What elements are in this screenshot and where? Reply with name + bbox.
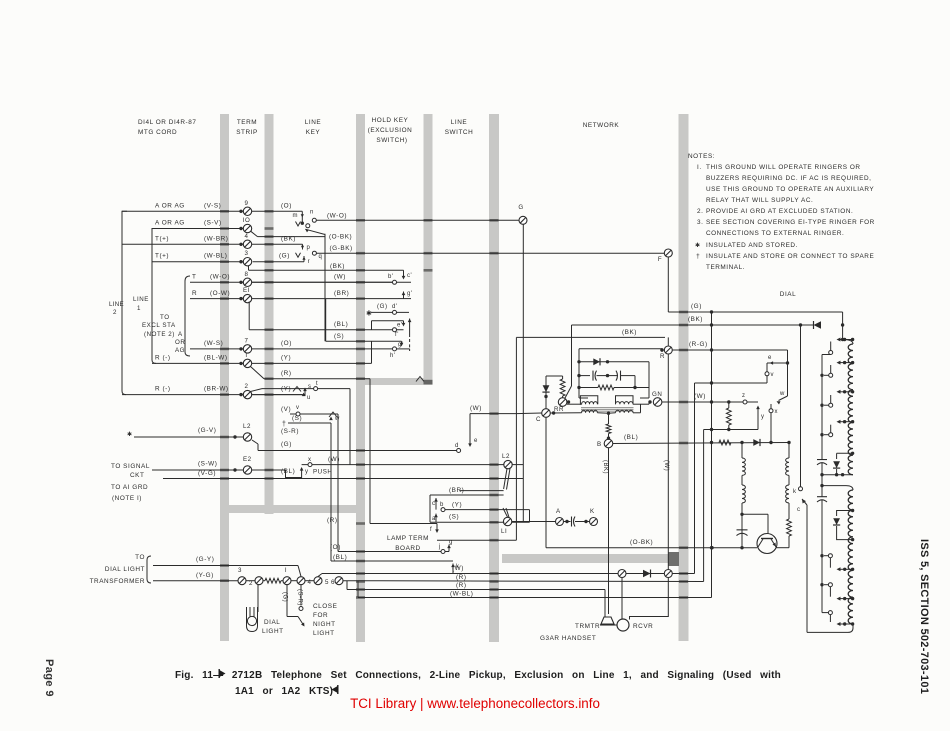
svg-text:3: 3 [238,567,242,574]
contact q on (G-BK) row [312,251,316,255]
svg-text:(NOTE 2): (NOTE 2) [144,331,175,338]
svg-text:T: T [192,274,196,281]
ringer 1 bottom wire [822,474,853,476]
svg-text:LINE: LINE [451,119,467,126]
svg-text:x: x [308,457,312,463]
svg-text:MTG CORD: MTG CORD [138,129,177,136]
svg-text:x: x [775,409,779,415]
svg-text:R (-): R (-) [155,354,171,361]
svg-text:†: † [282,421,286,428]
svg-text:(O): (O) [281,340,292,347]
network resistor row [577,386,580,389]
svg-text:A OR AG: A OR AG [155,202,185,209]
lamp terminal 2 [246,580,255,582]
svg-text:e: e [768,355,772,361]
gray strip term-strip right [265,114,274,514]
wire c vertical down [806,505,808,632]
svg-text:(Y): (Y) [452,502,462,509]
terminal R [664,346,672,354]
wire o contact diagonal to (O-BK) [305,229,309,232]
network transformer bottom windings [582,410,598,413]
night light switch [286,585,288,617]
contact h' on terminal 7 row [393,347,397,351]
svg-text:IO: IO [243,217,251,224]
lamp terminal 6 [335,577,343,585]
svg-text:(W): (W) [328,456,340,463]
contact n on (W-O) row [312,218,316,222]
gray strip hold-key [424,114,433,380]
svg-text:(S): (S) [334,333,344,340]
svg-text:v: v [296,405,300,411]
terminal F [664,249,672,257]
ringer 1 left rail [822,354,831,356]
wire (BL) row from B to dial [613,443,789,444]
wire RR feed corner [571,325,573,386]
wire terminal 2 to s-t row [251,389,263,392]
svg-text:(BL): (BL) [333,554,347,561]
lamp terminal G [291,580,297,582]
contact r riser from terminal 3 row [303,256,305,262]
svg-text:SWITCH: SWITCH [445,129,474,136]
svg-text:(S): (S) [449,514,459,521]
svg-text:u: u [307,395,311,401]
svg-text:(BR): (BR) [334,290,349,297]
svg-text:(V): (V) [281,406,291,413]
svg-text:Fig. 11— 2712B Telephone Se: Fig. 11— 2712B Telephone Set Connections… [175,670,781,681]
svg-text:INSULATE AND STORE OR CONNECT: INSULATE AND STORE OR CONNECT TO SPARE [706,253,874,260]
dial inductor right [788,443,790,459]
wire RCVR right lead [630,578,669,620]
svg-text:I: I [285,567,287,574]
svg-text:(W): (W) [334,274,346,281]
wire e up to (W) cross-connect [469,414,471,437]
varistor at C [545,376,547,383]
wire (O-BK) row [546,547,757,549]
varistor on (BK) at ringer [814,321,822,329]
svg-text:F: F [658,256,662,263]
svg-text:†: † [696,253,700,260]
ringer 2 tap rows [843,568,846,571]
wire L1 to A [512,521,556,523]
svg-text:LI: LI [501,528,507,535]
network capacitor row [577,374,580,377]
wire (BK) feed to R terminal [516,336,665,338]
contact m n o cluster on line key [301,211,303,224]
contact y arrow [757,407,759,430]
bracket dial light transformer [147,556,151,583]
terminal B [604,439,613,448]
svg-text:m: m [293,213,299,219]
wire vertical 325 from (O-BK) row to (S) row [324,234,326,341]
wire row (S-W) to terminal E2 [152,469,243,471]
transformer core [581,407,634,409]
svg-text:LINE: LINE [109,301,124,308]
svg-text:e': e' [397,323,403,329]
terminal GN [653,398,662,407]
wire G vertical down [522,225,524,522]
terminal A and K with capacitor [556,518,564,526]
svg-text:(BL): (BL) [334,321,348,328]
svg-text:y: y [305,469,309,475]
svg-text:k: k [793,489,797,495]
ringer 1 varistor branch [837,452,853,454]
svg-text:R: R [192,290,197,297]
svg-text:LINE: LINE [305,119,321,126]
bracket LINE 1 [152,229,157,364]
handset diode [626,573,664,575]
RCVR [617,619,629,631]
wire R vertical down to handset terminal [667,354,669,569]
svg-text:2: 2 [249,580,253,587]
wire row A OR AG (S-V) to terminal 10 [152,228,243,230]
svg-text:(G): (G) [377,303,388,310]
wire (S) row to cluster [326,340,402,342]
svg-text:DIAL LIGHT: DIAL LIGHT [105,566,145,573]
svg-text:TO: TO [135,554,145,561]
contact b' c' on (W) row [392,281,411,283]
ringer 2 coil [848,490,853,624]
svg-text:n: n [310,210,314,216]
svg-text:6: 6 [331,579,335,586]
svg-text:(W): (W) [663,460,669,471]
wire between ringers [821,475,823,486]
svg-text:3: 3 [245,250,249,257]
svg-text:I.: I. [697,164,702,171]
svg-text:NETWORK: NETWORK [583,122,620,129]
svg-text:USE THIS GROUND TO OPERATE AN: USE THIS GROUND TO OPERATE AN AUXILIARY [706,186,874,193]
svg-text:4: 4 [245,233,249,240]
dial resistor vertical [728,402,730,408]
svg-text:3.: 3. [697,219,703,226]
svg-text:2: 2 [113,309,117,316]
wire TRMTR lead [604,590,606,618]
wire crossing marks on strips [220,210,229,213]
terminal C [542,409,551,418]
lamp terminal 5 [305,580,314,582]
ringer 2 contacts [820,554,823,557]
svg-text:9: 9 [245,200,249,207]
svg-text:(EXCLUSION: (EXCLUSION [368,127,413,134]
svg-text:g: g [449,540,453,546]
svg-text:TERMINAL.: TERMINAL. [706,264,745,271]
svg-text:(S-W): (S-W) [198,461,217,468]
svg-text:1: 1 [137,305,141,312]
svg-text:y: y [761,414,765,420]
svg-text:d': d' [392,304,398,310]
svg-text:AG: AG [175,347,185,354]
contact w [779,396,788,401]
network bottom center tap to B [607,412,610,415]
svg-text:(BR-W): (BR-W) [204,386,229,393]
svg-text:1A1 or 1A2 KTS): 1A1 or 1A2 KTS) [235,686,333,697]
svg-text:BOARD: BOARD [395,545,420,552]
svg-text:(W-BR): (W-BR) [204,235,228,242]
ringer 2 capacitor [821,487,823,497]
svg-text:a: a [432,516,436,522]
wire transfer row to network vertical [437,539,516,541]
svg-text:GN: GN [652,391,662,398]
svg-text:EI: EI [243,287,250,294]
caption change marker 1 [219,670,226,678]
svg-text:(W-O): (W-O) [210,274,230,281]
terminal RR [558,398,567,407]
svg-text:T(+): T(+) [155,253,169,260]
svg-text:s: s [308,384,312,390]
svg-text:CKT: CKT [130,472,144,479]
ringer 1 capacitor [821,448,823,460]
svg-text:TO: TO [160,314,170,321]
svg-text:K: K [590,508,595,515]
svg-text:TRANSFORMER: TRANSFORMER [90,578,145,585]
svg-text:G3AR HANDSET: G3AR HANDSET [540,635,596,642]
svg-text:SWITCH): SWITCH) [376,137,407,144]
svg-text:(R-G): (R-G) [689,341,708,348]
svg-text:A: A [556,508,561,515]
svg-text:q: q [319,254,323,260]
svg-text:A OR AG: A OR AG [155,220,185,227]
L2 spring contacts [504,469,507,489]
wire row T(+) (W-BR) to terminal 4 [122,243,243,245]
svg-text:DI4L OR DI4R-87: DI4L OR DI4R-87 [138,119,196,126]
wire (BL) row to e' cluster [249,329,403,331]
lamp terminal 1 [283,577,291,585]
terminal L1 line switch [503,517,511,525]
svg-text:f: f [430,527,432,533]
svg-text:w: w [334,416,340,422]
contact u [302,393,306,397]
svg-text:d: d [455,443,459,449]
ringer 1 armature contacts [830,342,832,352]
svg-text:(W-O): (W-O) [327,213,347,220]
contact g' on (BR) row [398,298,411,300]
svg-text:I: I [245,352,247,359]
handset terminal right [664,570,672,578]
contact o [306,224,310,228]
ringer 2 top wire [822,485,846,487]
wire L1 row to vertical [512,521,530,523]
ringer 2 bottom wire [807,624,853,632]
contact k [451,564,455,568]
wire B vertical down (BK) to TRMTR [608,448,610,614]
svg-text:FOR: FOR [313,612,328,619]
contact e [767,362,788,364]
svg-text:z: z [742,393,746,399]
gray strip line-key [356,114,365,642]
network transformer windings [579,397,588,399]
svg-text:T(+): T(+) [155,235,169,242]
svg-text:(G): (G) [691,303,702,310]
wire terminal 10 to (O-BK) row [251,231,258,236]
RR resistor leg [546,375,563,377]
svg-text:4: 4 [308,579,312,586]
svg-text:ISS 5, SECTION 502-703-101: ISS 5, SECTION 502-703-101 [918,539,930,694]
svg-text:RELAY THAT WILL SUPPLY AC.: RELAY THAT WILL SUPPLY AC. [706,197,813,204]
dial resistor right leg [787,519,792,536]
TRMTR symbol [601,617,614,624]
svg-text:w: w [779,391,785,397]
lamp terminal 3 [238,577,246,585]
terminal L2 line switch [504,460,512,468]
wire (BK) row from terminal 3 [248,266,250,270]
svg-text:(Y): (Y) [281,354,291,361]
contact p q r cluster [302,244,304,249]
svg-text:(S-V): (S-V) [204,220,222,227]
svg-text:STRIP: STRIP [236,129,258,136]
ringer 1 tap rows [843,338,846,341]
svg-text:RR: RR [554,406,564,413]
svg-text:C: C [536,416,541,423]
notes block [688,153,875,271]
svg-text:(BK): (BK) [622,329,637,336]
svg-text:G: G [518,204,523,211]
handset terminal left [618,570,626,578]
svg-text:(S-R): (S-R) [281,428,299,435]
svg-text:8: 8 [245,271,249,278]
svg-text:(O-BK): (O-BK) [329,234,352,241]
gray bar lamp term board top [225,505,358,513]
svg-text:B: B [597,441,602,448]
wire RCVR left lead [621,578,623,619]
svg-text:TO AI GRD: TO AI GRD [111,484,148,491]
svg-text:(BK): (BK) [688,316,703,323]
transistor [757,534,777,554]
gray bar hold-key bottom elbow [356,378,433,385]
svg-text:L2: L2 [502,453,510,460]
svg-text:EXCL STA: EXCL STA [142,322,176,329]
wire row T (W-O) to terminal 8 [190,281,243,283]
svg-text:NIGHT: NIGHT [313,621,336,628]
svg-text:TERM: TERM [237,119,257,126]
svg-text:R (-): R (-) [155,386,171,393]
svg-text:(R): (R) [456,582,467,589]
svg-text:2.: 2. [697,208,703,215]
svg-text:(Y-G): (Y-G) [196,572,214,579]
svg-text:(S): (S) [292,415,302,422]
svg-text:5: 5 [325,579,329,586]
contact caret on (R) row [416,377,424,382]
svg-text:✱: ✱ [695,242,701,249]
wire (W) row from GN to dial [662,401,758,403]
svg-text:HOLD KEY: HOLD KEY [372,117,409,124]
wire L2 to vertical bus [512,464,523,466]
wire row A OR AG (W-S) to terminal 7 [190,348,243,350]
bracket LINE 2 [122,211,127,394]
svg-text:t: t [316,381,318,387]
svg-text:b': b' [388,274,394,280]
contact x [757,401,759,403]
wire (BL) feed from E1 down [248,302,250,330]
L1 spring contacts [503,508,508,517]
wire row R(-) (BL-W) to terminal 1 [152,362,243,364]
svg-text:(W-S): (W-S) [204,340,223,347]
svg-text:DIAL: DIAL [780,291,796,298]
svg-text:(W): (W) [452,565,464,572]
svg-text:j: j [438,544,441,550]
svg-text:(R): (R) [327,517,338,524]
svg-text:2: 2 [245,383,249,390]
svg-text:(S-R): (S-R) [297,589,303,606]
contact e' cluster [372,320,404,322]
svg-text:p: p [307,245,311,251]
wire row R (O-W) to terminal E1 [190,298,243,300]
svg-text:(BR): (BR) [449,487,464,494]
svg-text:(G): (G) [279,253,290,260]
svg-text:INSULATED AND STORED.: INSULATED AND STORED. [706,242,798,249]
svg-text:LIGHT: LIGHT [262,628,284,635]
svg-text:(O): (O) [330,544,341,551]
svg-text:(V-G): (V-G) [198,470,216,477]
wire vertical bus dial x=711.5 [711,312,713,598]
svg-text:BUZZERS REQUIRING DC. IF AC IS: BUZZERS REQUIRING DC. IF AC IS REQUIRED, [706,175,871,182]
svg-text:(O): (O) [281,202,292,209]
svg-text:TRMTR: TRMTR [575,623,600,630]
dial inductor left [741,443,743,459]
svg-text:c': c' [407,273,412,279]
capacitor on left leg [741,516,743,530]
svg-text:(G-BK): (G-BK) [330,245,353,252]
svg-text:(V-S): (V-S) [204,202,221,209]
svg-text:(O-W): (O-W) [210,290,230,297]
svg-text:DIAL: DIAL [264,619,280,626]
ringer 2 varistor branch [851,509,854,512]
ringer 1 coil [843,340,853,345]
wire vertical bus C-row to transfer row [515,414,517,541]
svg-text:CLOSE: CLOSE [313,603,337,610]
svg-text:(G): (G) [282,592,288,602]
wire row T(+) (W-BL) to terminal 3 [152,261,243,263]
contact s [293,387,301,392]
svg-text:(R): (R) [281,370,292,377]
wire vertical to handset left [694,383,696,574]
svg-text:(O-BK): (O-BK) [630,539,653,546]
svg-text:(W-BL): (W-BL) [450,591,473,598]
svg-text:✱: ✱ [366,310,372,318]
svg-text:LIGHT: LIGHT [313,630,335,637]
svg-text:THIS GROUND WILL OPERATE RINGE: THIS GROUND WILL OPERATE RINGERS OR [706,164,861,171]
svg-text:E2: E2 [243,456,252,463]
svg-text:f': f' [395,332,399,338]
lamp board resistor [263,580,265,582]
gray strip term-strip left [220,114,229,641]
wire network left vertical [515,337,517,413]
svg-text:(BK): (BK) [602,460,608,474]
gray strip line-switch [489,114,499,642]
ringer 2 left rail [821,510,823,613]
svg-text:(W-BL): (W-BL) [204,253,227,260]
wire link BR row to S row [325,299,327,342]
contact v [765,372,769,376]
gray bar below network [502,554,678,563]
svg-text:e: e [474,438,478,444]
branch to transistor base [742,513,768,515]
varistor on (BL) row [753,439,760,446]
svg-text:b: b [440,502,444,508]
svg-text:v: v [771,372,775,378]
terminal G [519,216,527,224]
caption figure title line 1 [175,670,781,697]
svg-text:(G-Y): (G-Y) [196,556,214,563]
svg-text:LINE: LINE [133,296,149,303]
wire vertical to handset second [703,430,705,582]
svg-text:✱: ✱ [127,431,133,438]
network inner box top [579,348,662,350]
contacts c and a [429,495,431,522]
network varistor row [577,360,580,363]
wire v row corner down to (O) row [337,414,339,552]
wire C vertical down to O-BK row [545,417,547,547]
wire terminal 1 to (R) row [251,367,265,379]
svg-text:(R): (R) [456,574,467,581]
